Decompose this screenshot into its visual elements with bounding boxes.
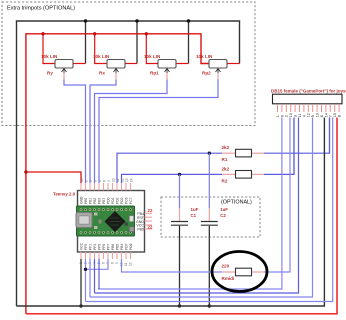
svg-text:PB7: PB7 <box>102 198 106 204</box>
R1 wire from Teensy PD2 to DB15 <box>117 153 222 183</box>
DB15 pin numbers <box>276 113 342 117</box>
wire red bus top <box>26 34 209 314</box>
wire red VCC rail to Teensy top pin1 <box>26 172 81 183</box>
svg-text:Ry: Ry <box>47 71 53 76</box>
R2 wire from Teensy PD3 to DB15 <box>122 174 223 183</box>
Teensy PCB graphic <box>76 206 135 236</box>
wire DB15 to bottom line3 <box>90 118 313 298</box>
svg-text:DB15 female ("GamePort") for j: DB15 female ("GamePort") for joystick <box>271 89 346 94</box>
svg-text:Rp2: Rp2 <box>202 71 211 76</box>
junction dot red rail <box>24 170 27 173</box>
resistor R2 2k2 <box>222 166 252 183</box>
resistor Rmidi 220 <box>222 264 252 282</box>
DB15 connector <box>271 89 346 104</box>
wire DB15 to R1 <box>329 118 331 154</box>
svg-text:1: 1 <box>276 115 280 117</box>
svg-text:R2: R2 <box>222 178 228 183</box>
svg-text:PD1: PD1 <box>111 197 115 204</box>
junction dots red bus <box>41 32 148 35</box>
dashed box Extra trimpots (OPTIONAL) <box>2 2 255 126</box>
svg-text:2: 2 <box>89 180 93 182</box>
svg-text:GND: GND <box>79 196 83 204</box>
svg-text:PB4: PB4 <box>120 244 124 250</box>
svg-text:9: 9 <box>107 180 111 182</box>
wire Teensy PF1 down to line3 <box>89 259 91 297</box>
svg-text:C2: C2 <box>220 213 226 218</box>
wire wiper Rp2 to Teensy PB3 <box>217 73 219 80</box>
trimpot Ry <box>41 54 73 76</box>
svg-text:2k2: 2k2 <box>222 166 230 171</box>
Teensy top pin numbers <box>80 178 134 182</box>
svg-text:15: 15 <box>333 113 337 117</box>
svg-text:(OPTIONAL): (OPTIONAL) <box>221 200 252 206</box>
wire C1 ground <box>179 237 181 306</box>
svg-text:PB1: PB1 <box>88 198 92 204</box>
wire black bus top <box>17 21 240 306</box>
svg-text:10k LIN: 10k LIN <box>144 54 161 59</box>
junction dot C2 branch <box>208 152 211 155</box>
svg-text:PD2: PD2 <box>115 197 119 204</box>
wire jumper PF0 to PF7 <box>86 259 109 269</box>
svg-text:Rp1: Rp1 <box>150 71 159 76</box>
wire red drop T2 <box>95 34 107 64</box>
wire wiper Ry to Teensy PB0 <box>63 73 65 80</box>
svg-text:12: 12 <box>129 262 133 266</box>
wire DB15 to bottom line4 <box>86 118 333 302</box>
Teensy top pin labels <box>79 196 133 204</box>
svg-text:22: 22 <box>148 225 153 230</box>
Teensy right pin labels <box>136 212 145 232</box>
svg-text:PF4: PF4 <box>93 244 97 250</box>
trimpot Rp2 <box>196 54 227 76</box>
wire DB15 to R2 <box>293 118 295 175</box>
svg-text:220: 220 <box>222 264 230 269</box>
trimpot Rx <box>93 54 125 76</box>
svg-text:PB6: PB6 <box>111 244 115 250</box>
svg-text:4: 4 <box>98 180 102 182</box>
svg-text:PB5: PB5 <box>115 244 119 250</box>
svg-text:6: 6 <box>102 262 106 264</box>
svg-text:9: 9 <box>115 262 119 264</box>
svg-text:PD7: PD7 <box>124 243 128 250</box>
svg-text:PD6: PD6 <box>129 243 133 250</box>
svg-text:24: 24 <box>80 178 84 182</box>
svg-text:1uF: 1uF <box>191 207 199 212</box>
svg-text:6: 6 <box>320 115 324 117</box>
svg-text:PF1: PF1 <box>88 244 92 250</box>
wire black drop T2 <box>136 21 138 64</box>
svg-text:10k LIN: 10k LIN <box>196 54 213 59</box>
ellipse annotation <box>212 252 267 292</box>
svg-text:2k2: 2k2 <box>222 145 230 150</box>
svg-text:4: 4 <box>302 115 306 117</box>
wire red drop T3 <box>146 34 158 64</box>
svg-text:Rmidi: Rmidi <box>222 276 235 281</box>
svg-text:PC6: PC6 <box>124 197 128 204</box>
svg-text:PD0: PD0 <box>106 197 110 204</box>
junction dots cap grounds <box>178 304 181 307</box>
svg-text:5: 5 <box>311 115 315 117</box>
dashed box (OPTIONAL) caps <box>161 197 260 237</box>
svg-text:10k LIN: 10k LIN <box>93 54 110 59</box>
svg-text:8: 8 <box>338 115 342 117</box>
Teensy bottom pin labels <box>79 242 133 250</box>
wire Teensy PF4 down to line2 <box>94 259 96 293</box>
svg-text:8: 8 <box>103 180 107 182</box>
svg-text:2: 2 <box>285 115 289 117</box>
svg-text:22: 22 <box>148 208 153 213</box>
Teensy 2.0 module <box>53 191 145 253</box>
trimpot Rp1 <box>144 54 176 76</box>
capacitor C2 <box>201 153 229 237</box>
wire Teensy PB4 to Rmidi <box>122 259 223 272</box>
svg-text:Extra trimpots (OPTIONAL): Extra trimpots (OPTIONAL) <box>7 6 75 12</box>
DB15 pin stubs <box>278 104 340 112</box>
svg-text:PF5: PF5 <box>97 244 101 250</box>
svg-text:PB0: PB0 <box>84 198 88 204</box>
svg-text:PB3: PB3 <box>97 198 101 204</box>
svg-text:C1: C1 <box>191 213 197 218</box>
svg-text:3: 3 <box>294 115 298 117</box>
wire DB15 red power <box>26 118 337 314</box>
svg-text:3: 3 <box>94 180 98 182</box>
svg-text:11: 11 <box>116 178 120 182</box>
wire wiper Rp1 to Teensy PB2 <box>166 73 168 80</box>
svg-text:Teensy 2.0: Teensy 2.0 <box>53 192 76 197</box>
svg-text:PF0: PF0 <box>84 244 88 250</box>
svg-text:13: 13 <box>316 113 320 117</box>
Teensy right pin stubs <box>145 213 153 229</box>
svg-text:PF7: PF7 <box>106 244 110 250</box>
svg-text:14: 14 <box>130 178 134 182</box>
wire DB15 black ground <box>17 118 325 307</box>
wire wiper Rx to Teensy PB1 <box>115 73 117 80</box>
svg-text:12: 12 <box>121 178 125 182</box>
wire black drop T1 <box>85 21 87 64</box>
wire DB15 to Rmidi <box>264 118 290 273</box>
svg-text:PB2: PB2 <box>93 198 97 204</box>
wire black drop T3 <box>188 21 190 64</box>
junction dots black bus <box>84 19 190 22</box>
svg-text:13: 13 <box>125 178 129 182</box>
Teensy top pin stubs <box>81 183 131 191</box>
resistor R1 2k2 <box>222 145 252 162</box>
svg-text:R1: R1 <box>222 157 228 162</box>
wire Teensy PF0 down to line4 <box>85 259 87 302</box>
wire C2 ground <box>208 237 210 306</box>
svg-text:8: 8 <box>111 262 115 264</box>
svg-text:12: 12 <box>307 113 311 117</box>
wire DB15 to bottom line1 <box>98 118 282 290</box>
svg-text:1uF: 1uF <box>220 207 228 212</box>
capacitor C1 <box>171 174 199 237</box>
svg-text:10: 10 <box>289 113 293 117</box>
svg-text:11: 11 <box>298 113 302 117</box>
Teensy bottom pin stubs <box>81 252 131 259</box>
Teensy bottom pin numbers <box>79 262 133 266</box>
svg-text:PC7: PC7 <box>129 197 133 204</box>
wire red stub T4 right <box>227 63 240 65</box>
svg-text:10k LIN: 10k LIN <box>41 54 58 59</box>
svg-text:7: 7 <box>329 115 333 117</box>
svg-text:PD3: PD3 <box>120 197 124 204</box>
svg-text:10: 10 <box>112 178 116 182</box>
junction dot C1 branch <box>178 173 181 176</box>
svg-text:Rx: Rx <box>99 71 105 76</box>
wire Teensy PF5 down to line1 <box>98 259 100 289</box>
wire red drop T1 <box>43 34 55 64</box>
svg-text:14: 14 <box>324 113 328 117</box>
wire DB15 to bottom line2 <box>95 118 299 294</box>
svg-text:9: 9 <box>280 115 284 117</box>
svg-text:PF6: PF6 <box>102 244 106 250</box>
svg-text:PB5: PB5 <box>137 228 144 232</box>
wire Teensy bottom pin1 black to ground <box>80 259 82 306</box>
svg-text:11: 11 <box>124 262 128 266</box>
svg-text:VCC: VCC <box>79 242 83 250</box>
svg-text:1: 1 <box>85 180 89 182</box>
